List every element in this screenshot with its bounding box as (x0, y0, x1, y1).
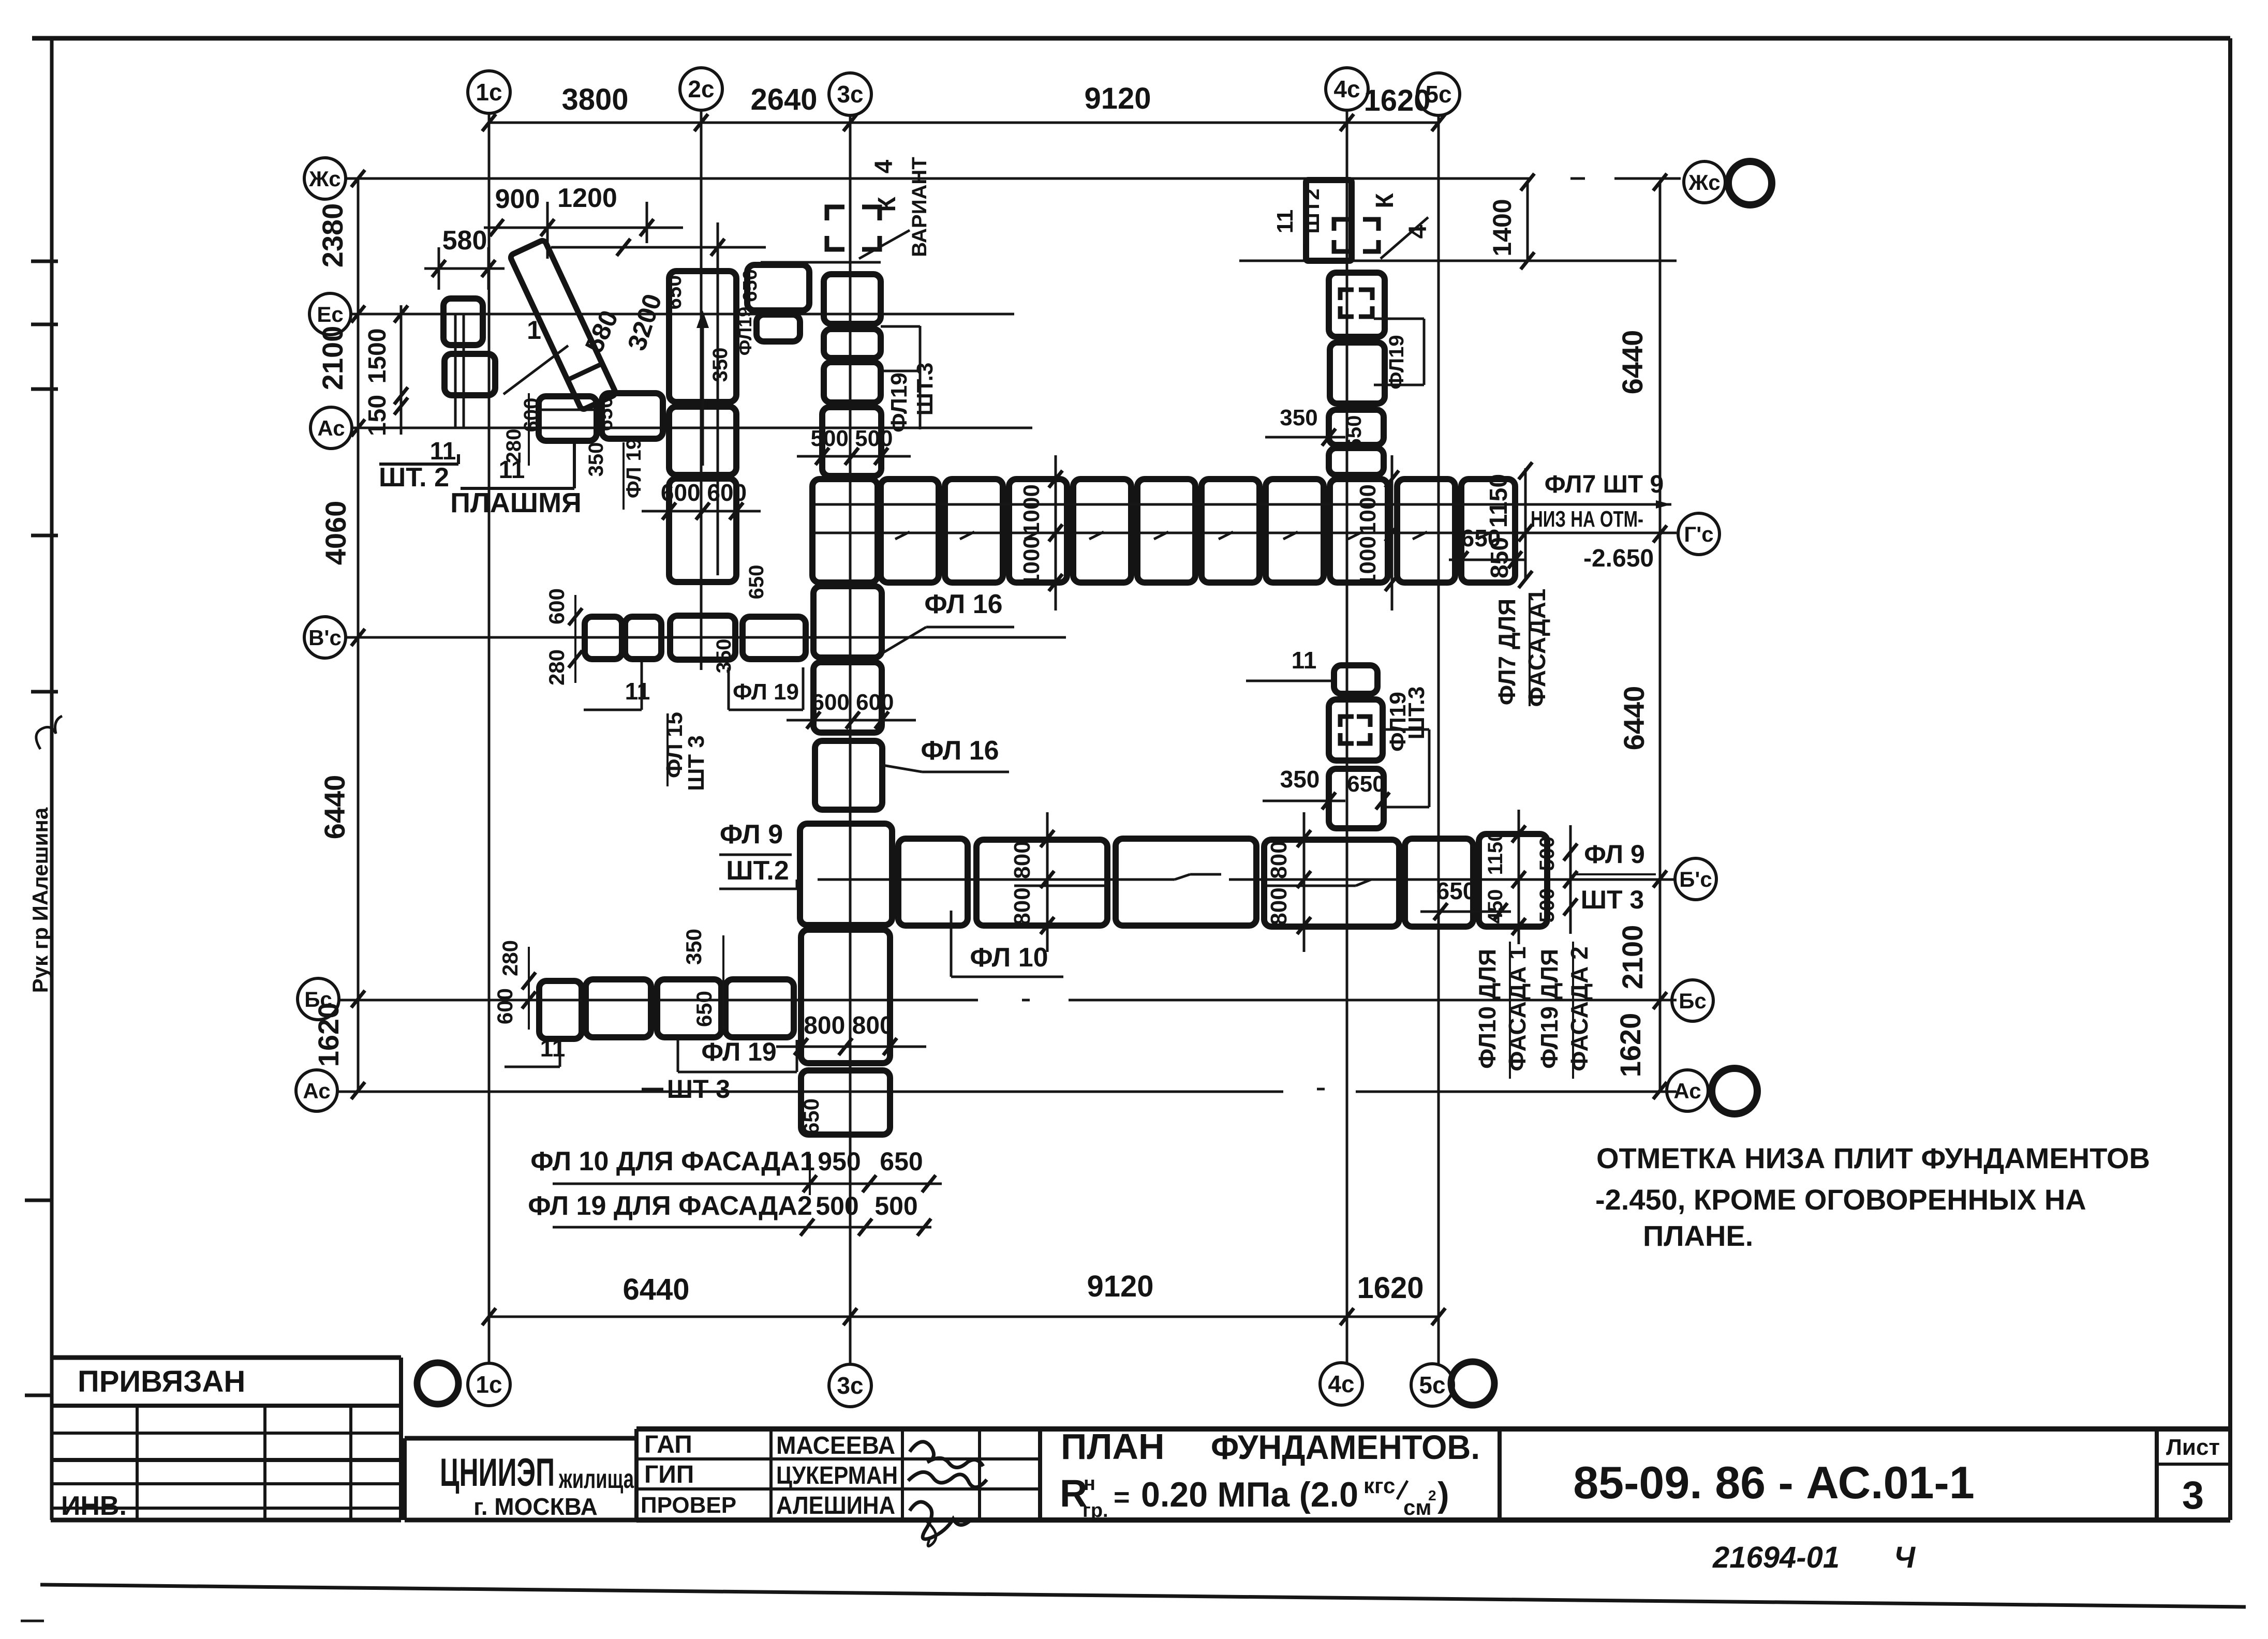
svg-text:6440: 6440 (1616, 330, 1649, 395)
bottom sheet edge line (40, 1585, 2246, 1607)
svg-text:ФАСАДА1: ФАСАДА1 (1523, 589, 1550, 707)
right axis bubble Б'с (1675, 858, 1716, 900)
top axis bubble 4с (1326, 68, 1368, 110)
svg-text:500: 500 (816, 1191, 858, 1220)
3c upper column block a (824, 362, 881, 403)
svg-text:800: 800 (1010, 841, 1035, 878)
labels 350 and FL19 left of 3c (709, 307, 755, 382)
labels 600/280 at Bc row (493, 940, 536, 1030)
labels 600/280 at Vc row (544, 588, 582, 686)
svg-text:К: К (1371, 193, 1399, 208)
axis line Ac-upper horizontal (351, 427, 1032, 429)
left axis bubble Бс (298, 978, 339, 1020)
design institute cell TSNIIEP zhilishcha Moscow (405, 1438, 636, 1520)
2c column block lower joins strip (669, 479, 736, 582)
svg-text:280: 280 (502, 429, 525, 464)
svg-text:500: 500 (874, 1191, 917, 1220)
svg-text:ФЛ 19: ФЛ 19 (733, 679, 799, 705)
svg-text:11: 11 (430, 438, 456, 465)
bottom axis bubble 3с (829, 1364, 871, 1407)
svg-text:650: 650 (1347, 771, 1385, 797)
dim ticks 500500 (797, 448, 911, 465)
svg-text:1200: 1200 (557, 183, 617, 213)
SHT3 label at Bc row (642, 1075, 730, 1104)
right axis bubble Жс (1684, 161, 1725, 203)
diagonal block alignment lines (551, 222, 766, 575)
3c block below Ac2 (799, 1070, 890, 1135)
labels FL15 SHT3 below Vc (662, 712, 709, 791)
svg-text:ПЛАН: ПЛАН (1061, 1426, 1165, 1467)
signatures (908, 1442, 987, 1546)
leader 11 sht2 bracket (379, 438, 458, 493)
labels 11 and SHT2 at 4c top (1272, 186, 1324, 243)
svg-text:ФЛ 9: ФЛ 9 (1584, 840, 1645, 869)
svg-text:ФАСАДА 2: ФАСАДА 2 (1566, 946, 1593, 1071)
svg-text:ФАСАДА 1: ФАСАДА 1 (1504, 946, 1531, 1071)
svg-text:600 600: 600 600 (811, 690, 894, 715)
right small dimension 1400 (1488, 174, 1534, 270)
svg-text:1: 1 (527, 316, 541, 345)
4c lower block 3 (1329, 769, 1385, 828)
svg-text:ГИП: ГИП (644, 1461, 694, 1488)
svg-text:350: 350 (681, 929, 706, 965)
Bc-prime 1150/450 dim (1484, 810, 1525, 944)
svg-text:Ес: Ес (317, 302, 343, 326)
left axis bubble В'с (304, 617, 346, 658)
svg-text:Лист: Лист (2166, 1435, 2220, 1460)
svg-text:21694-01: 21694-01 (1712, 1541, 1840, 1574)
right dimension chain 6440/6440/2100/1620 (1614, 174, 1667, 1099)
svg-text:ФЛ 10 ДЛЯ ФАСАДА1: ФЛ 10 ДЛЯ ФАСАДА1 (530, 1146, 815, 1176)
3c mid column block 1 (813, 586, 882, 658)
svg-text:3с: 3с (837, 1372, 863, 1399)
Gc strip vertical dim at x2690 (1355, 455, 1399, 610)
svg-text:см: см (1403, 1495, 1431, 1519)
svg-text:450: 450 (1484, 889, 1507, 924)
K4 callout at 4c (1371, 193, 1432, 259)
small dimension 580 (424, 226, 505, 290)
2c column arrow (696, 310, 709, 466)
sheet number cell List 3 (2157, 1429, 2230, 1520)
Gc strip foundation blocks FL7 (881, 479, 1515, 583)
svg-text:1620: 1620 (1363, 84, 1430, 117)
svg-text:11: 11 (540, 1035, 566, 1062)
dim 350 at 4c col (1265, 405, 1345, 446)
top small dimension 900/1200 (484, 183, 683, 259)
svg-text:ШТ.2: ШТ.2 (726, 856, 789, 886)
svg-text:150: 150 (364, 395, 391, 436)
2c column block upper (669, 271, 736, 402)
axis line Ac-lower horizontal (337, 1089, 1677, 1092)
svg-text:350: 350 (713, 639, 735, 674)
svg-text:2: 2 (1428, 1487, 1436, 1503)
Bc-prime strip foundation blocks FL10 (898, 834, 1547, 927)
axis line Zhc horizontal (346, 177, 1681, 180)
svg-text:6440: 6440 (1618, 686, 1650, 751)
svg-text:1с: 1с (476, 1371, 502, 1398)
axis line Vc horizontal (344, 636, 1066, 639)
svg-text:ШТ. 2: ШТ. 2 (379, 463, 449, 493)
Bc row block 4 (725, 979, 794, 1037)
Vc row block right (743, 617, 806, 659)
axis line 1c vertical (488, 113, 491, 1364)
labels 600/280 at Ac row (502, 393, 543, 466)
svg-text:650: 650 (663, 275, 686, 310)
axis line Bc-prime horizontal (818, 874, 1677, 880)
svg-text:2380: 2380 (316, 203, 349, 268)
svg-text:Ас: Ас (303, 1079, 330, 1103)
svg-text:ОТМЕТКА НИЗА ПЛИТ ФУНДАМЕНТ: ОТМЕТКА НИЗА ПЛИТ ФУНДАМЕНТОВ (1596, 1142, 2150, 1174)
2c column block middle (669, 407, 736, 475)
axis line 2c vertical (700, 110, 703, 670)
bottom dimension chain 6440/9120/1620 (482, 1270, 1445, 1325)
svg-text:ЦНИИЭП: ЦНИИЭП (440, 1451, 555, 1495)
svg-text:350: 350 (1280, 766, 1320, 793)
axis line Gc horizontal (810, 532, 1677, 534)
svg-text:350: 350 (585, 442, 607, 477)
svg-text:ВАРИАНТ: ВАРИАНТ (908, 157, 931, 257)
4c lower block 2 (1329, 699, 1383, 761)
svg-text:11: 11 (1272, 210, 1298, 234)
FL19 bracket at 4c col (1374, 319, 1424, 390)
svg-text:500: 500 (1536, 837, 1559, 871)
document number 85-09.86-AC.01-1 (1500, 1429, 1975, 1520)
top dimension chain 3800/2640/9120/1620 (482, 82, 1445, 131)
svg-text:1620: 1620 (1357, 1271, 1424, 1305)
left dimension chain 2380/2100/4060/6440/1620 (312, 170, 365, 1099)
Bc row block 1 (539, 981, 582, 1039)
svg-text:4с: 4с (1333, 76, 1360, 102)
svg-text:650: 650 (1343, 415, 1366, 450)
svg-text:600: 600 (544, 588, 569, 624)
svg-text:3: 3 (2182, 1473, 2204, 1517)
Bc-prime 500/500 dim (1536, 825, 1577, 934)
4c upper tall box (1306, 180, 1352, 261)
facade note line 1 (530, 1146, 942, 1195)
svg-text:г. МОСКВА: г. МОСКВА (473, 1493, 598, 1520)
dim 600/600 under 2c column (642, 479, 761, 520)
4c column block 1 (1329, 273, 1385, 337)
rotated labels FL10/FL19 facade (1474, 942, 1593, 1079)
dim 600 600 inside 3c mid column (787, 690, 916, 729)
svg-text:1150: 1150 (1484, 830, 1507, 875)
FL16 label upper (883, 589, 1014, 653)
svg-text:ФЛ 16: ФЛ 16 (921, 736, 999, 766)
3c upper column block a0 (824, 274, 881, 324)
svg-text:ФЛ19: ФЛ19 (1385, 335, 1408, 389)
svg-text:ФЛ19: ФЛ19 (886, 373, 912, 433)
svg-text:Ас: Ас (317, 416, 345, 440)
svg-text:1000: 1000 (1355, 536, 1381, 587)
svg-text:МАСЕЕВА: МАСЕЕВА (776, 1432, 895, 1459)
3c upper column block a1 (824, 329, 881, 358)
svg-text:ШТ.3: ШТ.3 (1404, 687, 1429, 740)
FL9 SHT2 callout (719, 820, 797, 889)
FL7 SHT9 leader (815, 471, 1671, 509)
K4 variant dashed corner marks at 3c (827, 207, 880, 249)
svg-text:1с: 1с (476, 79, 502, 106)
svg-text:1000: 1000 (1019, 536, 1044, 587)
labels FL19 SHT3 right of 3c column (881, 326, 938, 433)
3c mid column block 2 (813, 662, 882, 733)
svg-text:ФЛ 10: ФЛ 10 (970, 943, 1048, 973)
svg-text:280: 280 (498, 940, 522, 976)
svg-text:85-09. 86 - АС.01-1: 85-09. 86 - АС.01-1 (1573, 1457, 1975, 1508)
svg-text:3с: 3с (837, 81, 863, 108)
FL9 SHT3 labels right (1573, 840, 1656, 914)
Bc-prime 650 dim (1420, 877, 1511, 920)
svg-text:650: 650 (739, 269, 761, 302)
svg-text:НИЗ НА ОТМ-: НИЗ НА ОТМ- (1531, 506, 1643, 532)
block at Ac row right (602, 393, 663, 439)
rotated label FL7 for facade1 (1493, 589, 1550, 707)
svg-text:1620: 1620 (312, 1003, 345, 1067)
svg-text:1000: 1000 (1019, 484, 1044, 535)
left axis bubble Ес (309, 293, 351, 335)
svg-text:АЛЕШИНА: АЛЕШИНА (776, 1492, 895, 1519)
svg-text:ФЛ7 ШТ 9: ФЛ7 ШТ 9 (1545, 471, 1664, 498)
svg-text:6440: 6440 (622, 1273, 689, 1306)
4c column block 4 (1329, 448, 1384, 475)
Vc row block left pair (585, 617, 661, 659)
svg-text:ФЛ10 ДЛЯ: ФЛ10 ДЛЯ (1474, 949, 1501, 1069)
svg-text:11: 11 (1292, 647, 1317, 674)
svg-text:-2.650: -2.650 (1583, 545, 1654, 572)
svg-text:1620: 1620 (1614, 1013, 1647, 1078)
svg-text:4: 4 (870, 159, 898, 173)
svg-text:Бс: Бс (1679, 989, 1707, 1013)
svg-text:): ) (1437, 1475, 1449, 1514)
svg-text:ШТ 3: ШТ 3 (1581, 885, 1644, 914)
labels 350/650/FL19 at Vc right (713, 565, 803, 710)
left edge fold ticks (21, 261, 58, 1621)
svg-text:ЦУКЕРМАН: ЦУКЕРМАН (776, 1462, 898, 1489)
right small dimension 1150/850 (1485, 463, 1532, 588)
svg-text:жилища: жилища (558, 1464, 634, 1494)
svg-text:=: = (1114, 1482, 1130, 1513)
FL19 SHT3 bracket at 4c lower (1383, 687, 1429, 807)
label 11 bracket at Vc row (584, 662, 650, 710)
wall line y504 right part (1239, 260, 1677, 262)
svg-text:В'с: В'с (308, 625, 342, 650)
svg-text:280: 280 (544, 649, 569, 686)
svg-text:500 500: 500 500 (810, 426, 893, 451)
svg-text:11: 11 (625, 678, 650, 705)
Gc strip vertical dim at x2040 (1019, 455, 1062, 610)
wall line y507 (761, 261, 881, 264)
svg-text:ФЛ 19 ДЛЯ ФАСАДА2: ФЛ 19 ДЛЯ ФАСАДА2 (528, 1191, 812, 1221)
svg-text:Г'с: Г'с (1684, 522, 1713, 546)
svg-text:4с: 4с (1328, 1370, 1354, 1397)
4c column block 3 with 650 (1329, 410, 1384, 450)
left axis bubble Ас (296, 1070, 337, 1111)
svg-text:ИНВ.: ИНВ. (61, 1491, 127, 1521)
svg-text:600: 600 (493, 988, 517, 1024)
svg-text:Ч: Ч (1894, 1541, 1916, 1574)
note text otmetka (1595, 1142, 2150, 1252)
right axis bubble Ас (1667, 1070, 1708, 1111)
bold circle near Zhc right (1728, 161, 1772, 205)
svg-text:Ас: Ас (1673, 1079, 1701, 1103)
left axis bubble Жс (304, 158, 346, 199)
3c lower tall block (801, 930, 890, 1063)
dim 800 800 under 3c lower (776, 1012, 926, 1055)
svg-text:К: К (873, 197, 901, 212)
axis line Bc horizontal (339, 999, 1677, 1002)
right axis bubble Г'с (1678, 513, 1719, 555)
svg-text:Б'с: Б'с (1679, 867, 1712, 891)
svg-text:Жс: Жс (308, 167, 340, 191)
bottom axis bubble 1с (468, 1363, 510, 1406)
wall edge lines near Ec blocks (455, 314, 464, 428)
11 leader at 4c lower (1246, 647, 1331, 681)
Bc-prime strip step lines (1014, 874, 1371, 886)
3c big block at Bc-prime junction (800, 824, 892, 925)
svg-text:ФЛ 19: ФЛ 19 (701, 1037, 776, 1066)
block FL at Ec lower (444, 354, 495, 395)
svg-text:500: 500 (1536, 888, 1559, 923)
FL16 label lower (880, 736, 1009, 772)
Gc strip block hatch ticks (895, 532, 1492, 539)
svg-text:Рук гр ИАлешина: Рук гр ИАлешина (28, 807, 52, 993)
left revision table PRIVYAZAN/INV (51, 1358, 401, 1521)
svg-text:4: 4 (1404, 225, 1432, 239)
bold circle near 5c bottom (1451, 1362, 1494, 1405)
top axis bubble 2с (680, 68, 722, 110)
svg-text:н: н (1084, 1473, 1095, 1495)
svg-text:800: 800 (1266, 841, 1292, 878)
svg-text:600 600: 600 600 (661, 479, 747, 506)
axis line 3c vertical (849, 115, 852, 1364)
labels 650/350/FL19 at Ac row (585, 397, 645, 510)
svg-text:800: 800 (1010, 887, 1035, 925)
top axis bubble 5с (1417, 73, 1460, 115)
drawing title PLAN FUNDAMENTOV with Rgr formula (1060, 1426, 1480, 1522)
svg-text:6440: 6440 (318, 775, 351, 840)
labels 350/650 at Bc row (681, 929, 723, 1030)
svg-text:650: 650 (799, 1098, 823, 1135)
svg-text:ФЛ19: ФЛ19 (734, 307, 755, 356)
svg-text:800: 800 (1266, 887, 1292, 925)
svg-text:Жс: Жс (1688, 170, 1720, 195)
svg-text:ФЛ7 ДЛЯ: ФЛ7 ДЛЯ (1493, 599, 1520, 705)
svg-text:0.20 МПа (2.0: 0.20 МПа (2.0 (1141, 1475, 1358, 1514)
Bc row block 2 (586, 979, 651, 1037)
block pair left of 3c top (747, 265, 809, 341)
axis line 4c vertical (1346, 110, 1348, 1364)
left inner dimension 1500/150 (364, 305, 408, 436)
leader 11 plashmya bracket (450, 444, 582, 518)
4c column block 2 (1330, 342, 1385, 404)
block at Ac row left (539, 396, 597, 441)
bold circle near 1c bottom (417, 1363, 458, 1404)
svg-text:2с: 2с (688, 76, 714, 102)
svg-text:1400: 1400 (1488, 199, 1517, 256)
niz na otm note (1531, 506, 1654, 572)
svg-text:ПЛАШМЯ: ПЛАШМЯ (450, 487, 582, 518)
diagonal flat-laid block 1 (ПЛАШМЯ) (503, 240, 616, 410)
Gc strip corner block at 3c (812, 479, 878, 583)
svg-text:ПРОВЕР: ПРОВЕР (641, 1493, 736, 1518)
svg-text:ФЛ 16: ФЛ 16 (924, 589, 1002, 619)
svg-text:900: 900 (495, 184, 540, 214)
Bc-prime vdim at x2520 (1266, 812, 1311, 952)
svg-text:600: 600 (520, 398, 543, 433)
svg-text:650: 650 (745, 565, 768, 600)
svg-text:650: 650 (880, 1147, 923, 1176)
svg-text:3800: 3800 (561, 83, 628, 116)
top axis bubble 3с (829, 73, 871, 115)
svg-text:650: 650 (1461, 525, 1501, 552)
svg-text:ФЛ 19: ФЛ 19 (622, 438, 645, 498)
facade note line 2 (528, 1191, 931, 1236)
K4 variant dashed corners at 4c (1334, 219, 1378, 251)
dim 350 at 4c lower (1263, 766, 1389, 810)
svg-text:ШТ 3: ШТ 3 (684, 735, 709, 791)
bottom axis bubble 5с (1411, 1364, 1454, 1406)
Gc strip 650 dim (1449, 525, 1526, 569)
top axis bubble 1с (468, 71, 510, 113)
bottom axis bubble 4с (1320, 1363, 1362, 1405)
svg-text:350: 350 (709, 348, 732, 382)
svg-text:650: 650 (594, 397, 617, 431)
title block staff rows GAP/GIP/PROVER (636, 1429, 2230, 1520)
svg-text:800 800: 800 800 (804, 1012, 894, 1039)
svg-text:ФЛ 9: ФЛ 9 (720, 820, 783, 850)
FL19 bracket at Bc row (678, 1037, 797, 1072)
right axis bubble Бс (1672, 980, 1713, 1021)
svg-text:гр.: гр. (1083, 1500, 1108, 1522)
label 650 at small top block (739, 269, 761, 302)
svg-text:580: 580 (442, 226, 487, 256)
handwritten inventory number 21694-01 (1712, 1541, 1916, 1574)
svg-text:ПРИВЯЗАН: ПРИВЯЗАН (78, 1365, 245, 1398)
svg-text:ФЛ19 ДЛЯ: ФЛ19 ДЛЯ (1536, 949, 1563, 1069)
svg-text:9120: 9120 (1084, 82, 1151, 115)
svg-text:350: 350 (1280, 405, 1317, 430)
svg-text:2100: 2100 (1616, 925, 1649, 990)
svg-text:1500: 1500 (364, 329, 391, 384)
svg-text:5с: 5с (1419, 1372, 1445, 1398)
svg-text:ШТ 3: ШТ 3 (667, 1075, 731, 1104)
label 11 bracket at Bc row (505, 1035, 565, 1067)
axis line 5c vertical (1437, 115, 1440, 1364)
bold circle near Ac bottom right (1712, 1068, 1757, 1114)
axis line Ec horizontal (351, 313, 1014, 316)
svg-text:ФУНДАМЕНТОВ.: ФУНДАМЕНТОВ. (1211, 1428, 1480, 1466)
svg-text:2640: 2640 (750, 83, 817, 116)
svg-text:4060: 4060 (319, 501, 352, 565)
svg-text:кгс: кгс (1363, 1473, 1395, 1498)
left axis bubble Ас (310, 407, 352, 449)
4c lower small block 11 (1334, 665, 1377, 694)
block FL at Ec upper (443, 299, 483, 345)
left margin handwritten Ruk gr Aleshina (28, 716, 62, 993)
2c column 650 label (663, 275, 686, 310)
K4 callout at 3c (859, 157, 931, 259)
FL10 callout (951, 911, 1065, 980)
svg-text:9120: 9120 (1087, 1270, 1153, 1303)
Bc-prime vdim at x2024 (1010, 812, 1054, 952)
svg-text:ПЛАНЕ.: ПЛАНЕ. (1643, 1219, 1753, 1252)
Vc row block at 2c (670, 616, 735, 660)
svg-text:ГАП: ГАП (644, 1431, 692, 1458)
3c mid column block 3 (815, 741, 882, 810)
svg-text:650: 650 (692, 991, 716, 1027)
svg-text:1000: 1000 (1355, 484, 1381, 535)
Bc row block 3 (657, 979, 721, 1037)
svg-text:950: 950 (818, 1147, 861, 1176)
